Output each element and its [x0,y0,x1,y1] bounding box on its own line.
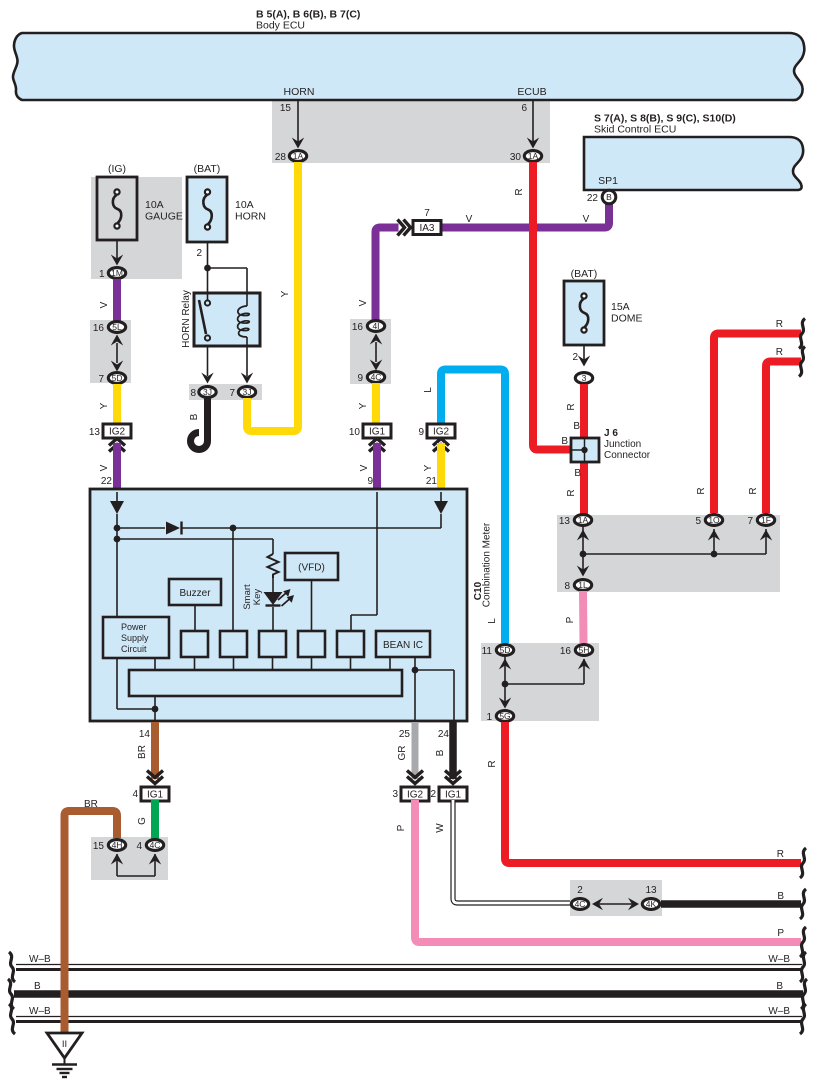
svg-text:V: V [358,299,369,306]
meter internal branch to smart key resistor [117,539,273,554]
svg-text:Y: Y [423,464,434,471]
svg-text:1M: 1M [111,268,123,278]
wire BR (brown) over buses segment [61,955,69,1034]
svg-text:V: V [466,214,473,225]
junction double arrow 4I-4C [370,334,382,371]
svg-text:B: B [777,891,784,902]
wire Y (yellow) 5D to IG2 [99,384,117,425]
svg-text:P: P [777,928,784,939]
svg-text:W: W [435,823,446,833]
connector 8 3J [190,387,216,399]
connector 1 1M [108,268,125,279]
svg-text:10: 10 [349,427,361,438]
wire BR (brown) meter pin 14 to 4 IG1 [137,722,155,779]
gray group box: connectors 4H-4C [91,837,168,880]
svg-text:5H: 5H [579,645,590,655]
wire R (red) 30 1A to J6 [514,162,572,450]
component Power Supply Circuit box [103,617,169,658]
meter internal PSC to pin 14 link [117,658,158,721]
svg-text:IG2: IG2 [407,790,424,801]
svg-text:8: 8 [564,581,570,592]
wire link junction to 5H [505,659,590,685]
ground II triangle [47,1033,82,1058]
wire BR (brown) 4H to ground [65,799,118,1034]
wire P (pink) 1L to 16 5H [565,591,584,643]
connector 7 5D [98,373,125,385]
svg-text:13: 13 [89,427,101,438]
svg-text:13: 13 [645,885,657,896]
gray group box: connectors 5D-5H-5G [481,643,599,721]
chevron pair above 4 IG1 [147,771,163,784]
component Buzzer box [169,579,221,631]
svg-text:G: G [137,817,148,825]
svg-text:(VFD): (VFD) [298,563,325,574]
connector 30 1A [510,151,542,163]
svg-text:W–B: W–B [768,1006,790,1017]
label Skid Control ECU title [594,113,736,136]
svg-text:22: 22 [587,193,599,204]
wire Y (yellow) IG2 to meter pin 21 [423,443,441,489]
svg-text:R: R [487,760,498,767]
connector 9 4C [357,372,384,384]
break symbols W-B lower [9,1004,806,1034]
svg-text:Body ECU: Body ECU [256,20,305,32]
svg-text:BR: BR [137,745,148,759]
junction connector J 6 [571,428,651,462]
svg-text:16: 16 [93,323,105,334]
svg-text:SP1: SP1 [598,175,618,187]
wire fuse HORN pin 2 to relay [196,242,247,293]
wire link 5D to 5G with junction [499,657,511,709]
wire B (black) 4K to right edge [661,891,801,904]
svg-text:5L: 5L [112,322,122,332]
svg-text:16: 16 [352,322,364,333]
svg-text:B: B [561,436,568,447]
gray group box: (IG) fuse / 1M region [91,177,182,279]
svg-text:7: 7 [424,208,430,219]
connector 5 1O [695,515,722,527]
chevron pair below IG1 [369,439,385,452]
svg-text:GR: GR [397,746,408,761]
fuse 10A HORN (BAT) [187,163,266,242]
svg-text:R: R [748,487,759,494]
chevron pair above 2 IG1 [445,771,461,784]
svg-text:6: 6 [521,103,527,114]
svg-text:2: 2 [577,885,583,896]
connector 8 1L [564,580,591,592]
svg-text:3J: 3J [203,387,212,397]
wire fuse GAUGE pin 1 to connector 1M [99,240,123,280]
wire R (red) connector 3 to J6 to 13 1A [566,384,584,514]
wire V (violet) IG1 to meter pin 9 [359,443,377,489]
svg-text:B: B [34,981,41,992]
meter internal line pin 9 to box5 [351,492,377,631]
gray group box: Body ECU connector 1A region [272,100,550,163]
component (VFD) box [285,553,338,631]
svg-text:16: 16 [560,646,572,657]
meter internal diode arrow pin 22 [110,492,124,617]
wire Y (yellow) 28 1A to 7 3J [247,162,298,431]
svg-text:R: R [514,188,525,195]
svg-text:30: 30 [510,152,522,163]
chevron pair above 3 IG2 [407,771,423,784]
svg-text:2: 2 [196,248,202,259]
module C10 Combination Meter box [90,489,493,721]
meter internal small box 5 [337,631,364,670]
svg-text:4I: 4I [372,321,379,331]
svg-text:5: 5 [695,516,701,527]
svg-text:L: L [423,387,434,393]
break symbol red upper [799,319,805,349]
wire V (violet) 1M to 5L [99,279,117,321]
chevron pair below IG2 [109,439,125,452]
svg-text:7: 7 [229,388,235,399]
meter internal small box 2 [220,528,247,670]
svg-text:Junction: Junction [604,439,641,450]
svg-text:B: B [606,192,612,202]
svg-text:W–B: W–B [29,954,51,965]
connector 13 4K [642,885,659,909]
gray group box: connectors 5L-5D [90,320,131,383]
svg-text:Skid Control ECU: Skid Control ECU [594,124,676,136]
svg-text:Circuit: Circuit [121,644,147,654]
svg-text:R: R [566,489,577,496]
svg-text:2: 2 [430,789,436,800]
fuse 10A GAUGE (IG) [97,163,183,240]
svg-text:15A: 15A [611,301,630,313]
svg-text:3: 3 [392,789,398,800]
svg-text:BEAN IC: BEAN IC [383,640,423,651]
wire link 1A to 1L with junction [577,527,589,577]
svg-text:ECUB: ECUB [517,86,546,98]
ground symbol [52,1058,77,1077]
svg-text:Y: Y [99,402,110,409]
svg-text:P: P [396,824,407,831]
svg-text:HORN: HORN [235,211,266,223]
wire W (white) IG1 to 2 4C [435,800,570,903]
svg-text:B: B [573,421,580,432]
connector 1 5G [486,711,513,723]
svg-text:P: P [565,616,576,623]
svg-text:1A: 1A [578,515,589,525]
svg-text:V: V [99,464,110,471]
svg-text:5G: 5G [499,711,510,721]
svg-text:5D: 5D [500,645,511,655]
svg-text:25: 25 [399,729,411,740]
svg-text:1O: 1O [708,515,720,525]
svg-text:IG2: IG2 [433,427,450,438]
svg-text:Buzzer: Buzzer [179,588,211,599]
wire link 4C to 4K double arrow [592,898,639,910]
meter internal rail with diode [117,522,441,535]
relay HORN Relay [181,290,260,348]
svg-text:9: 9 [418,427,424,438]
svg-text:4K: 4K [646,899,657,909]
label pin HORN on Body ECU [284,86,315,98]
svg-text:B: B [189,413,200,420]
connector 11 5D [482,645,514,657]
svg-text:B: B [776,981,783,992]
svg-text:Combination Meter: Combination Meter [482,522,493,607]
svg-text:B: B [574,468,581,479]
gray group box: connectors 4C-4K [570,880,662,916]
svg-text:(BAT): (BAT) [194,163,221,175]
svg-text:7: 7 [98,374,104,385]
svg-text:Y: Y [358,402,369,409]
svg-text:13: 13 [559,516,571,527]
svg-text:14: 14 [139,729,151,740]
label pin ECUB on Body ECU [517,86,546,98]
meter internal node dots [114,525,121,543]
connector 13 IG2 [89,424,131,438]
break symbols W-B upper [9,952,806,982]
svg-text:IG1: IG1 [369,427,386,438]
svg-text:R: R [696,487,707,494]
svg-text:1F: 1F [761,515,771,525]
wire R (red) 7 1F to right [748,347,801,513]
resistor smart key [268,554,279,592]
svg-text:28: 28 [275,152,287,163]
wire V (violet) IA3 to 16 4I [358,228,399,321]
label Body ECU title [256,9,360,32]
component BEAN IC box [376,631,430,670]
connector 7 IA3 [413,208,441,235]
meter internal diode arrow pin 21 [434,492,448,528]
wire V (violet) SP1 B to IA3 junction [441,204,609,228]
module Skid Control ECU (band) [584,137,803,190]
wire R (red) 5 1O to right [696,319,801,513]
connector 2 IG1 [430,787,467,801]
relay switch contact [199,293,210,341]
relay coil [238,293,250,346]
svg-text:BR: BR [84,799,98,810]
svg-text:V: V [583,214,590,225]
wire link junction to 1O and 1F [583,529,772,557]
connector 22 B [587,190,616,204]
svg-text:(IG): (IG) [108,163,126,175]
wire Y (yellow) 4C to IG1 [358,383,376,425]
connector 9 IG2 [418,424,455,438]
svg-text:W–B: W–B [768,954,790,965]
chevron pair left of IA3 [398,220,411,236]
svg-text:IA3: IA3 [419,223,434,234]
svg-text:4: 4 [132,789,138,800]
connector 10 IG1 [349,424,391,438]
connector 7 3J [229,387,255,399]
label pin SP1 [598,175,618,187]
svg-text:4H: 4H [112,840,123,850]
break symbol red lower [799,347,805,377]
wire fuse DOME pin 2 to connector 3 [572,345,590,367]
svg-text:R: R [776,319,783,330]
svg-text:V: V [99,301,110,308]
wire pin 6 Body ECU ECUB to connector 30 1A [521,100,539,149]
svg-text:5D: 5D [112,373,123,383]
gray group box: connectors 3J [189,384,262,400]
svg-text:DOME: DOME [611,313,643,325]
svg-text:1L: 1L [578,580,588,590]
svg-text:1A: 1A [528,151,539,161]
connector 3 IG2 [392,787,429,801]
junction double arrow 5L-5D [111,335,123,372]
svg-text:15: 15 [93,841,105,852]
svg-text:11: 11 [482,646,493,657]
break symbol black [800,889,806,919]
connector 7 1F [747,515,774,527]
wire L (blue) IG2 to 11 5D [423,370,505,644]
wire link 4H to 4C [111,854,161,877]
svg-text:L: L [487,618,498,624]
bus wire B (black) [14,981,803,994]
wire GR (gray) meter pin 25 to 3 IG2 [397,722,415,779]
svg-text:22: 22 [101,476,113,487]
wire relay to connector 8 3J [201,346,213,384]
svg-text:J 6: J 6 [604,428,618,439]
connector 4 4C [136,840,163,852]
bus wire W-B upper [16,954,802,970]
bus wire W-B lower [16,1006,802,1022]
connector 3 [575,373,592,384]
break symbols B bus [8,979,807,1009]
meter internal small box 3 [259,631,286,670]
module Body ECU (band) [13,33,804,100]
svg-text:24: 24 [438,729,450,740]
svg-text:GAUGE: GAUGE [145,211,183,223]
svg-text:9: 9 [367,476,373,487]
meter internal small box 4 [298,631,325,670]
svg-text:2: 2 [572,352,578,363]
svg-text:10A: 10A [235,199,254,211]
svg-text:Connector: Connector [604,450,651,461]
svg-text:3J: 3J [243,387,252,397]
connector 16 5H [560,645,593,657]
LED smart key [264,589,295,631]
svg-text:(BAT): (BAT) [571,268,598,280]
wire G (green) IG1 to 4 4C [137,800,155,839]
svg-text:Y: Y [280,290,291,297]
chevron pair below 9 IG2 [433,439,449,452]
svg-text:10A: 10A [145,199,164,211]
svg-text:21: 21 [426,476,438,487]
svg-text:9: 9 [357,373,363,384]
wire B (black) meter pin 24 to 2 IG1 [435,722,453,779]
wire V (violet) IG2 to meter pin 22 [99,443,117,489]
svg-text:B: B [435,749,446,756]
wire R (red) 5G to right edge [487,722,801,863]
wire P (pink) IG2 to right edge [396,800,801,942]
wire pin 15 Body ECU HORN to connector 28 1A [280,100,304,149]
wire relay coil to connector 7 3J [241,346,253,384]
svg-text:R: R [776,347,783,358]
connector 28 1A [275,151,307,163]
svg-text:4C: 4C [575,899,586,909]
svg-text:1: 1 [99,269,105,280]
connector 16 5L [93,322,126,334]
svg-text:Power: Power [121,622,147,632]
break symbol red bottom [800,848,806,878]
svg-text:HORN Relay: HORN Relay [181,290,192,348]
svg-text:4C: 4C [371,372,382,382]
meter internal small box 1 [181,631,208,670]
gray group box: connectors 1A-1O-1F-1L [557,515,780,592]
connector 15 4H [93,840,126,852]
svg-text:15: 15 [280,103,292,114]
svg-text:HORN: HORN [284,86,315,98]
svg-text:7: 7 [747,516,753,527]
connector 16 4I [352,321,385,333]
meter internal bus bar [129,670,402,696]
svg-text:IG1: IG1 [147,790,164,801]
svg-text:R: R [566,403,577,410]
gray group box: connectors 4I-4C [350,319,391,384]
svg-text:IG1: IG1 [445,790,462,801]
fuse 15A DOME (BAT) [564,268,643,345]
svg-text:W–B: W–B [29,1006,51,1017]
svg-text:R: R [777,849,784,860]
wire B (black) ground pigtail below 8 3J [189,398,208,450]
meter internal BEAN IC to pins 24 25 [412,657,454,721]
svg-text:Supply: Supply [121,633,149,643]
svg-text:3: 3 [582,373,587,383]
label Smart Key [242,584,263,610]
svg-text:4: 4 [136,841,142,852]
svg-text:IG2: IG2 [109,427,126,438]
svg-text:V: V [359,464,370,471]
break symbol pink [800,927,806,957]
connector 2 4C [571,885,588,909]
svg-text:1A: 1A [293,151,304,161]
svg-text:1: 1 [486,712,492,723]
svg-text:II: II [62,1039,67,1050]
svg-text:4C: 4C [150,840,161,850]
connector 13 1A [559,515,592,527]
svg-text:8: 8 [190,388,196,399]
svg-text:Key: Key [252,589,263,606]
connector 4 IG1 [132,787,169,801]
